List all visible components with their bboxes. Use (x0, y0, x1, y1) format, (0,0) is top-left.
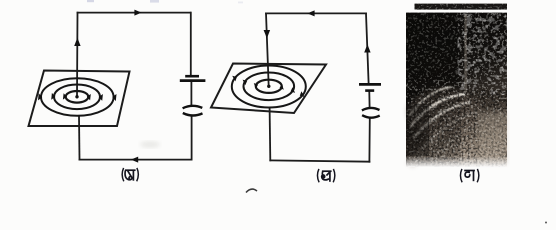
battery circuit 2: short plate (365, 89, 374, 92)
key/plug top arc circuit 2 (362, 108, 380, 110)
label (kha) (317, 169, 334, 182)
key/plug bottom arc circuit 1 (183, 113, 203, 116)
wire: top wire circuit 2 (266, 12, 366, 14)
tiny dot bottom right (545, 222, 547, 224)
ellipse arrowheads circuit 1 (38, 93, 117, 101)
light zone around arcs (406, 88, 482, 136)
battery circuit 1: long plate (180, 79, 206, 82)
wire: left wire circuit 2 (into card) (266, 13, 269, 86)
wire: right wire upper circuit 1 (190, 13, 192, 75)
key/plug bottom arc circuit 2 (362, 115, 380, 118)
wire: bottom wire circuit 2 (270, 160, 369, 161)
bottom fade of photo (406, 156, 507, 167)
arrow on bottom wire circuit 1 (left) (131, 157, 138, 163)
grain overlays (406, 13, 507, 167)
center dot circuit 1 (75, 95, 78, 98)
arrow on left wire circuit 2 (down) (264, 30, 271, 38)
field ellipses circuit 1 (41, 78, 114, 116)
wire: top wire circuit 1 (78, 12, 191, 14)
battery circuit 2: long plate (359, 83, 381, 86)
battery circuit 1: short plate (185, 75, 199, 78)
wire: battery-to-key segment circuit 1 (190, 82, 192, 106)
field ellipses circuit 2 (232, 66, 306, 108)
photo main block (406, 13, 507, 168)
card (parallelogram) circuit 2 (211, 64, 326, 114)
wire: below-card wire circuit 1 (78, 116, 81, 160)
wire: bottom wire circuit 1 (80, 159, 192, 161)
faint smudge right of label ka (140, 141, 160, 148)
label (ka) (122, 168, 138, 181)
card (parallelogram) circuit 1 (29, 71, 130, 127)
key/plug top arc circuit 1 (183, 106, 203, 108)
wire: below-card wire circuit 2 (269, 108, 272, 160)
photo wire vertical line (464, 14, 466, 96)
arrow on top wire circuit 1 (right) (134, 10, 141, 16)
wire: right wire upper circuit 2 (366, 13, 369, 83)
arrow on left wire circuit 1 (up) (74, 38, 80, 46)
wire: right wire lower circuit 2 (368, 118, 370, 162)
wire: left wire circuit 1 (through card center) (76, 13, 79, 97)
light diagonal streak bottom-left (406, 130, 443, 168)
white filings arcs (409, 87, 480, 156)
arrow on top wire circuit 2 (left) (307, 10, 314, 16)
label (ga) (460, 169, 478, 182)
arrow on right wire circuit 2 (up) (364, 44, 370, 52)
wire: battery-to-key segment circuit 2 (368, 92, 370, 107)
center dot circuit 2 (267, 85, 270, 88)
photo top bar (415, 4, 508, 10)
stray mark: small arc under circuits (246, 189, 257, 192)
wire: right wire lower circuit 1 (191, 116, 193, 160)
ellipse arrowheads circuit 2 (232, 76, 304, 97)
stray faint marks at top edge (87, 0, 94, 2)
